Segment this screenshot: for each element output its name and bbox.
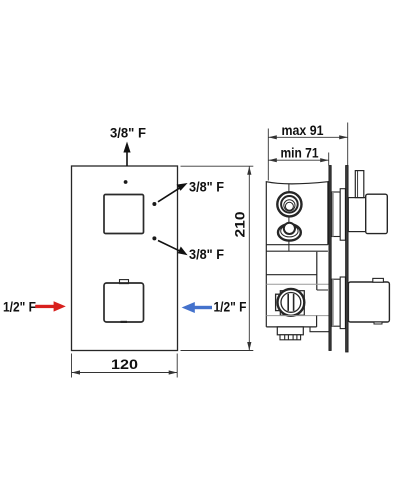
lower sleeve between body and wall plate bbox=[331, 279, 340, 326]
volume knob top tab (side) bbox=[373, 278, 384, 282]
dimension 120: extension lines bbox=[72, 354, 178, 378]
arrow: top outlet 3/8"F (vertical up) bbox=[123, 142, 130, 167]
thermostat stem inner line bbox=[357, 171, 359, 198]
body separation line 1 bbox=[266, 244, 328, 246]
valve body outline (side view) bbox=[266, 182, 328, 327]
port 2 flange inner bbox=[281, 225, 298, 237]
svg-text:210: 210 bbox=[232, 211, 248, 237]
dimension max 91: extension line left bbox=[267, 129, 269, 181]
upper sleeve shading bbox=[332, 192, 334, 237]
volume knob (front, bottom square) bbox=[104, 283, 144, 322]
front panel outline bbox=[72, 166, 178, 351]
wall plate 2 (outer) bbox=[346, 166, 349, 353]
dimension max 91: dimension line with arrows bbox=[268, 135, 347, 139]
body centerline bbox=[288, 184, 290, 251]
valve screw slot bbox=[288, 294, 293, 311]
svg-text:3/8" F: 3/8" F bbox=[110, 125, 146, 141]
svg-text:3/8" F: 3/8" F bbox=[189, 246, 224, 262]
port 1 outer ring bbox=[277, 192, 301, 216]
valve circle inner bbox=[281, 293, 301, 313]
dimension 120: dimension line with arrows bbox=[72, 370, 178, 374]
volume knob top tab bbox=[120, 280, 129, 284]
lower sleeve rim bbox=[340, 277, 345, 329]
arrow: lower-right outlet 3/8"F bbox=[158, 241, 188, 256]
node: right outlet dot upper bbox=[152, 202, 156, 206]
bottom connector bbox=[277, 327, 303, 335]
node: top outlet dot bbox=[124, 180, 128, 184]
mid body line bbox=[266, 274, 317, 276]
valve left tab bbox=[276, 294, 281, 310]
body bottom right edge bbox=[316, 316, 318, 327]
dimension min 71: dimension line with arrows bbox=[268, 158, 328, 162]
dimension 210: dimension line with arrows bbox=[247, 166, 251, 350]
port 2 nipple bbox=[284, 223, 295, 234]
mid body step line bbox=[317, 289, 328, 291]
body bottom edge bbox=[266, 326, 316, 328]
volume knob bottom mark bbox=[121, 321, 128, 323]
thermostat sleeve (outside plate) bbox=[348, 198, 365, 232]
dimension 210: extension lines bbox=[181, 166, 254, 350]
body separation line 2 bbox=[266, 250, 328, 252]
body bottom step bbox=[310, 327, 330, 332]
bottom connector teeth bbox=[280, 335, 301, 340]
wall plate 1 (inner) bbox=[329, 166, 331, 351]
thermostat knob (side) bbox=[366, 194, 388, 233]
arrow: hot inlet 1/2"F (red, points right) bbox=[35, 301, 66, 311]
svg-text:1/2" F: 1/2" F bbox=[214, 299, 247, 315]
svg-text:min 71: min 71 bbox=[281, 144, 319, 160]
svg-text:120: 120 bbox=[111, 356, 138, 372]
dimension max 91: extension line right bbox=[347, 123, 349, 166]
upper sleeve rim bbox=[340, 189, 345, 241]
mid body gray line bbox=[266, 283, 329, 285]
node: right outlet dot lower bbox=[152, 236, 156, 240]
valve circle outer bbox=[278, 289, 305, 316]
arrow: upper-right outlet 3/8"F bbox=[158, 183, 188, 202]
body bottom gray line bbox=[266, 315, 329, 317]
port 2 flange bbox=[278, 224, 301, 240]
mid body right edge bbox=[316, 252, 318, 290]
volume knob bottom notch (side) bbox=[374, 322, 382, 324]
svg-text:1/2" F: 1/2" F bbox=[3, 298, 36, 314]
thermostat knob (front, top square) bbox=[104, 195, 144, 234]
lower sleeve shading bbox=[332, 279, 334, 326]
valve block (behind circle) bbox=[280, 291, 304, 316]
svg-text:3/8" F: 3/8" F bbox=[189, 178, 224, 194]
volume knob (side) bbox=[348, 282, 389, 322]
dimension min 71: extension line right bbox=[328, 153, 330, 166]
arrow: cold inlet 1/2"F (blue, points left) bbox=[182, 302, 212, 313]
svg-text:max 91: max 91 bbox=[282, 122, 324, 138]
upper sleeve between body and wall plate bbox=[331, 192, 340, 237]
port 1 middle ring bbox=[281, 196, 298, 213]
thermostat stem bbox=[355, 171, 364, 198]
port 1 inner cone bbox=[284, 200, 295, 211]
